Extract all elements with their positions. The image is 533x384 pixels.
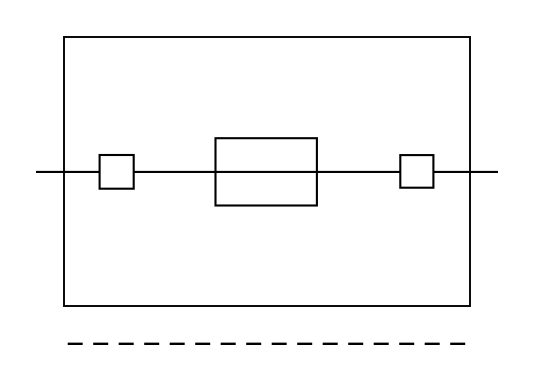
clamp contact right: [400, 155, 433, 188]
wire: [36, 171, 498, 173]
terminal block body: [64, 37, 470, 306]
clamp contact left: [100, 155, 134, 189]
fuse holder F1: [216, 138, 317, 205]
mounting rail (dashed): [68, 343, 466, 345]
